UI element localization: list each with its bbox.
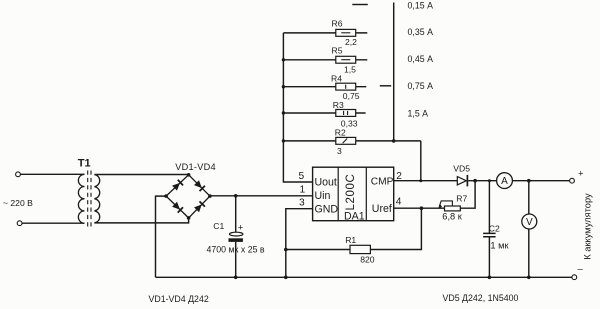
svg-text:R7: R7 (456, 194, 467, 204)
svg-text:1,5: 1,5 (344, 64, 356, 74)
svg-text:0,75 А: 0,75 А (408, 81, 434, 91)
svg-text:4700 мк x 25 в: 4700 мк x 25 в (207, 245, 265, 255)
svg-text:C1: C1 (213, 221, 224, 231)
svg-text:2,2: 2,2 (345, 37, 357, 47)
svg-text:VD1-VD4 Д242: VD1-VD4 Д242 (149, 294, 209, 304)
svg-text:Uout: Uout (315, 177, 337, 189)
svg-text:К аккумулятору: К аккумулятору (583, 193, 593, 260)
svg-text:DA1: DA1 (344, 211, 365, 223)
svg-text:R4: R4 (331, 74, 342, 84)
svg-text:~ 220 В: ~ 220 В (3, 198, 33, 208)
svg-text:5: 5 (299, 171, 305, 182)
svg-text:6,8 к: 6,8 к (442, 212, 463, 222)
svg-text:R3: R3 (333, 100, 344, 110)
svg-text:R1: R1 (345, 235, 356, 245)
svg-text:0,15 А: 0,15 А (408, 0, 434, 10)
svg-text:R2: R2 (335, 128, 346, 138)
svg-text:VD5 Д242, 1N5400: VD5 Д242, 1N5400 (443, 293, 519, 303)
svg-text:2: 2 (396, 171, 402, 182)
svg-text:VD1-VD4: VD1-VD4 (175, 162, 216, 172)
svg-text:+: + (238, 223, 244, 234)
svg-text:CMP: CMP (371, 177, 394, 188)
svg-text:C2: C2 (489, 223, 500, 233)
svg-text:GND: GND (315, 204, 339, 216)
svg-text:4: 4 (396, 197, 402, 208)
svg-text:1: 1 (300, 185, 306, 196)
svg-text:Uref: Uref (372, 203, 392, 215)
svg-text:0,35 А: 0,35 А (408, 27, 434, 37)
svg-text:820: 820 (360, 255, 375, 265)
svg-text:0,45 А: 0,45 А (408, 54, 434, 64)
svg-text:1,5 А: 1,5 А (408, 108, 429, 118)
svg-text:Uin: Uin (315, 190, 331, 202)
svg-text:T1: T1 (78, 158, 91, 170)
svg-text:VD5: VD5 (453, 164, 470, 174)
svg-text:0,75: 0,75 (343, 91, 360, 101)
svg-text:L200C: L200C (345, 174, 357, 211)
svg-text:R6: R6 (332, 19, 343, 29)
svg-text:1 мк: 1 мк (490, 241, 509, 251)
svg-text:+: + (578, 169, 584, 180)
svg-text:3: 3 (299, 198, 305, 209)
svg-text:V: V (526, 217, 533, 228)
svg-text:3: 3 (337, 146, 342, 156)
svg-text:–: – (578, 264, 584, 275)
svg-text:R5: R5 (332, 46, 343, 56)
svg-text:A: A (501, 176, 508, 187)
